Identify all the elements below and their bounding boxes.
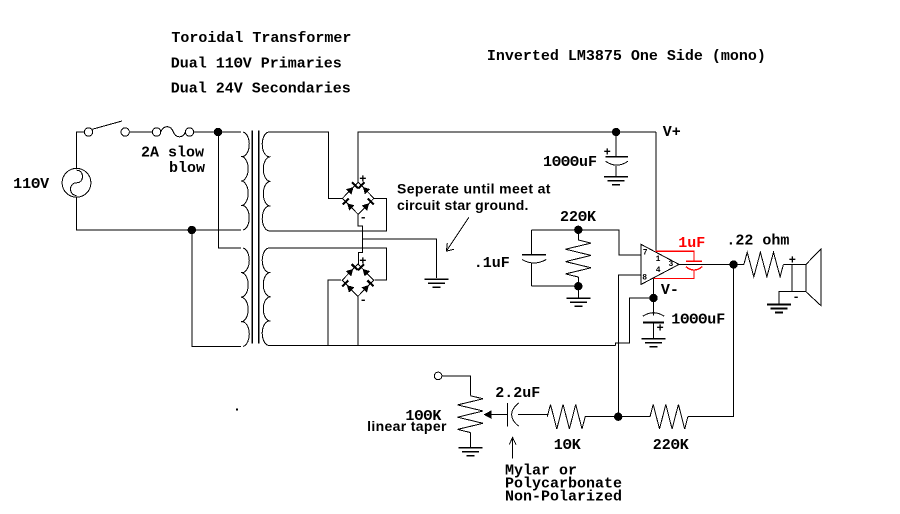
transformer T1 primary winding 1 [241, 132, 249, 230]
transformer T1 secondary winding 1 [262, 132, 270, 231]
wire: BR1 - and BR2 + meet (star ground legs) [358, 215, 363, 265]
switch S1 (open SPST) [84, 121, 129, 136]
wire: pot bottom to ground [469, 433, 471, 448]
ground: speaker ground [767, 305, 791, 313]
wire: feedback from output node down to 220K [688, 265, 734, 417]
svg-text:.22 ohm: .22 ohm [726, 233, 789, 250]
svg-text:1ΘΘΘuF: 1ΘΘΘuF [671, 312, 725, 329]
transformer T1 primary winding 2 [241, 248, 249, 346]
ground: pot ground [458, 448, 482, 456]
svg-text:V-: V- [661, 282, 679, 299]
svg-text:-: - [793, 291, 800, 305]
svg-text:Dual 24V Secondaries: Dual 24V Secondaries [171, 81, 351, 98]
capacitor C4 1000uF (V- bypass) [643, 298, 664, 339]
potentiometer VR1 100K element [458, 396, 484, 433]
svg-text:4: 4 [656, 266, 661, 275]
wire: V- rail jog up to V- node [616, 298, 650, 346]
wire: V+ rail down to op-amp pin 1 [655, 132, 657, 252]
wire: hot feed down to primary 2 top (crosses neutral) [219, 136, 241, 248]
wire: C5 to R3 [518, 414, 547, 416]
resistor R4 220K feedback [650, 404, 688, 429]
wire: speaker - to ground [779, 292, 792, 305]
transformer T1 core [252, 131, 258, 344]
svg-text:.1uF: .1uF [474, 255, 510, 272]
svg-text:+: + [604, 145, 611, 159]
svg-text:1uF: 1uF [678, 235, 705, 252]
wire: output dot to R2 [734, 264, 744, 266]
junction: V- node [649, 294, 657, 302]
resistor R2 .22 ohm [744, 252, 784, 277]
capacitor C5 2.2uF [508, 403, 519, 427]
resistor R1 220K (to ground) [566, 240, 592, 277]
wire: fuse to primary 1 top [194, 131, 241, 133]
junction: top of 220K / .1uF [574, 226, 582, 234]
svg-text:-: - [360, 294, 367, 308]
bridge rectifier BR2 (lower, 4 diodes) [342, 264, 373, 296]
wire: R1 top lead [577, 230, 579, 240]
junction: bottom of 220K / .1uF [574, 282, 582, 290]
wire: up-leg to bridge BR2 AC left [328, 280, 341, 345]
ground: star ground symbol [425, 279, 449, 287]
wire: op-amp pin 8 inverting input down to feedback node [618, 275, 641, 413]
junction: hot node at transformer [214, 128, 222, 136]
svg-text:+: + [789, 253, 796, 267]
svg-text:22ΘK: 22ΘK [653, 437, 689, 454]
arrow: Mylar note to C5 [509, 438, 516, 459]
wire: star ground tap [363, 239, 437, 278]
wire: bridge BR1 AC right to secondary 1 bottom [269, 198, 387, 230]
wire: secondary 2 bottom and V- rail horizontal [269, 345, 616, 347]
junction: output node [729, 260, 737, 268]
svg-text:-: - [360, 211, 367, 225]
junction: inverting input node [614, 413, 622, 421]
wire: C2/R1 bottom to ground [532, 286, 579, 298]
arrow: note to star ground [446, 217, 469, 251]
op-amp U1 LM3875 triangle [641, 244, 679, 284]
svg-text:+: + [359, 255, 366, 269]
junction: neutral node at transformer [188, 226, 196, 234]
AC source V1 (110V mains) [62, 168, 91, 197]
input terminal J1 [434, 372, 442, 380]
svg-text:3: 3 [669, 260, 674, 269]
svg-text:+: + [657, 322, 664, 336]
svg-text:circuit star ground.: circuit star ground. [397, 197, 529, 213]
capacitor C1 1000uF (V+ bypass) [606, 136, 628, 177]
svg-text:22ΘK: 22ΘK [560, 209, 596, 226]
wire: R3 to inverting node [585, 416, 618, 418]
wire: op-amp output to .22 ohm [679, 263, 734, 265]
wire: BR1 + up to V+ rail [358, 132, 656, 182]
wire: feedback node to R4 [618, 416, 650, 418]
svg-text:Non-Polarized: Non-Polarized [505, 489, 622, 506]
wire: R1 bottom lead [577, 277, 579, 286]
wire: switch to fuse [129, 131, 152, 133]
bridge rectifier BR1 (upper, 4 diodes) [343, 182, 374, 214]
svg-text:Dual 11ΘV Primaries: Dual 11ΘV Primaries [171, 56, 342, 73]
resistor R3 10K [547, 404, 585, 429]
wire: secondary 2 top to bridge BR2 AC right [269, 248, 387, 280]
wire: BR2 - down to V- rail [357, 296, 359, 345]
svg-text:+: + [359, 173, 366, 187]
svg-text:11ΘV: 11ΘV [13, 176, 49, 193]
stray mark [236, 409, 238, 411]
svg-text:2A slow: 2A slow [141, 145, 204, 162]
svg-text:linear taper: linear taper [367, 418, 447, 434]
wire: AC hot up to switch [77, 132, 85, 168]
ground: C1 ground [604, 177, 628, 185]
junction: V+ rail at 1000uF cap [612, 128, 620, 136]
svg-text:7: 7 [643, 248, 648, 257]
ground: R1/C2 ground [566, 298, 590, 306]
wire: neutral feed down to primary 2 bottom [192, 234, 241, 346]
svg-text:V+: V+ [663, 124, 681, 141]
svg-text:blow: blow [169, 160, 205, 177]
svg-text:Inverted LM3875 One Side (mono: Inverted LM3875 One Side (mono) [487, 48, 766, 65]
wire: non-inverting network to op-amp pin 7 [532, 230, 641, 255]
wire: op-amp pin 4 down to V- node [653, 278, 655, 298]
svg-text:1ΘΘΘuF: 1ΘΘΘuF [543, 154, 597, 171]
potentiometer VR1 wiper arrow [484, 410, 508, 419]
fuse F1 (2A slow blow) [152, 127, 193, 137]
wire: input jack to pot top [442, 376, 470, 396]
svg-text:Seperate until meet at: Seperate until meet at [397, 180, 551, 196]
capacitor C2 .1uF [522, 230, 546, 286]
svg-text:1ΘK: 1ΘK [554, 437, 581, 454]
wire: AC neutral bottom rail to primary 1 bottom [77, 197, 242, 230]
wire: secondary 1 top to bridge BR1 AC left [269, 132, 343, 198]
svg-text:2.2uF: 2.2uF [495, 385, 540, 402]
svg-text:8: 8 [642, 274, 647, 283]
ground: C4 ground [642, 339, 666, 347]
capacitor C3 1uF (red) across pins 1-4 [653, 251, 702, 278]
speaker SPK1 [792, 249, 821, 306]
transformer T1 secondary winding 2 [262, 248, 270, 346]
wire: R2 to speaker + [783, 264, 792, 266]
svg-text:Toroidal Transformer: Toroidal Transformer [171, 30, 351, 47]
svg-text:1: 1 [656, 255, 661, 264]
